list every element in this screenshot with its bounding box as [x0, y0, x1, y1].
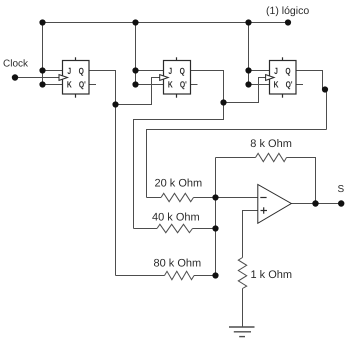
- svg-text:K: K: [274, 80, 279, 90]
- node summing 20k: [212, 194, 218, 200]
- wire Q1 down to 80k: [115, 105, 117, 276]
- node summing 40k: [212, 225, 218, 231]
- node K2: [132, 81, 138, 87]
- wire K2 input: [136, 84, 164, 86]
- wire 80k left lead: [116, 275, 165, 277]
- svg-text:1 k Ohm: 1 k Ohm: [251, 269, 293, 281]
- op-amp plus sign: [261, 207, 268, 213]
- wire rail 3 vertical: [248, 23, 250, 85]
- node Q3 junction: [322, 86, 328, 92]
- clock wedge U1: [59, 75, 68, 81]
- node J1: [39, 67, 45, 73]
- node K1: [39, 81, 45, 87]
- svg-text:Q': Q': [180, 80, 187, 90]
- wire Q1 output to FF2 clock: [89, 71, 116, 105]
- wire 8k right lead down to output: [287, 158, 316, 204]
- svg-text:(1) lógico: (1) lógico: [266, 5, 309, 17]
- node K3: [245, 81, 251, 87]
- svg-text:Q': Q': [79, 80, 86, 90]
- node S terminal: [338, 200, 344, 206]
- wire Q3' stub: [296, 84, 303, 86]
- clock wedge U3: [266, 75, 275, 81]
- wire rail 2 vertical: [135, 23, 137, 85]
- flip-flop U3 box: [270, 57, 297, 97]
- wire summing node vertical: [215, 158, 217, 276]
- node clock terminal: [12, 74, 18, 80]
- wire Q2 down to 40k: [134, 103, 224, 229]
- node summing 80k: [212, 272, 218, 278]
- wire non-inverting input to 1k: [243, 211, 258, 258]
- ground: [229, 327, 255, 337]
- wire Q3 output down: [296, 71, 327, 130]
- node Q1 junction: [112, 101, 118, 107]
- net (1) logico top rail: [43, 22, 289, 24]
- flip-flop U2 box: [164, 57, 191, 97]
- node top rail right: [245, 19, 251, 25]
- svg-text:40 k Ohm: 40 k Ohm: [152, 212, 200, 224]
- clock wedge U2: [160, 75, 169, 81]
- node J2: [132, 67, 138, 73]
- svg-text:80 k Ohm: 80 k Ohm: [154, 257, 202, 269]
- svg-text:K: K: [168, 80, 173, 90]
- wire Q3 to 20k: [147, 130, 327, 198]
- svg-text:J: J: [67, 66, 71, 76]
- wire K1 input: [43, 84, 63, 86]
- wire J1 input: [43, 70, 63, 72]
- node output junction: [312, 200, 318, 206]
- resistor R 20k: [161, 193, 193, 201]
- wire rail 1 vertical: [42, 23, 44, 85]
- wire J2 input: [136, 70, 164, 72]
- wire Q2' stub: [191, 84, 198, 86]
- svg-text:K: K: [67, 80, 72, 90]
- node (1) logico terminal: [285, 19, 291, 25]
- node top rail mid: [132, 19, 138, 25]
- svg-text:Q: Q: [180, 66, 185, 76]
- wire 1k to ground: [242, 289, 244, 328]
- resistor R 40k: [157, 224, 192, 232]
- wire clock input: [15, 77, 59, 79]
- svg-text:Q: Q: [285, 66, 290, 76]
- svg-text:S: S: [338, 184, 345, 195]
- svg-text:Q: Q: [79, 66, 84, 76]
- resistor R 8k feedback: [256, 153, 287, 161]
- wire 40k left lead: [134, 228, 158, 230]
- svg-text:Q': Q': [286, 80, 293, 90]
- node J3: [245, 67, 251, 73]
- wire Q1' stub: [89, 84, 96, 86]
- flip-flop U1 box: [63, 57, 90, 97]
- wire 40k right lead: [193, 228, 216, 230]
- wire J3 input: [249, 70, 270, 72]
- svg-text:J: J: [168, 66, 172, 76]
- wire K3 input: [249, 84, 270, 86]
- svg-text:8 k Ohm: 8 k Ohm: [250, 138, 292, 150]
- svg-text:20 k Ohm: 20 k Ohm: [155, 178, 203, 190]
- resistor R 80k: [165, 271, 195, 279]
- wire 80k right lead: [194, 275, 216, 277]
- wire Q2 output to FF3 clock: [191, 71, 224, 103]
- resistor R 1k: [238, 258, 246, 289]
- svg-text:J: J: [274, 66, 278, 76]
- wire 8k left lead: [216, 157, 256, 159]
- op-amp U4: [258, 185, 292, 224]
- node Q2 junction: [220, 99, 226, 105]
- node top rail left: [39, 19, 45, 25]
- wire 20k right lead: [194, 197, 216, 199]
- wire op-amp output: [291, 203, 341, 205]
- svg-text:Clock: Clock: [3, 58, 29, 69]
- op-amp minus sign: [260, 197, 266, 199]
- wire 20k left lead: [147, 197, 162, 199]
- wire inverting input: [216, 197, 258, 199]
